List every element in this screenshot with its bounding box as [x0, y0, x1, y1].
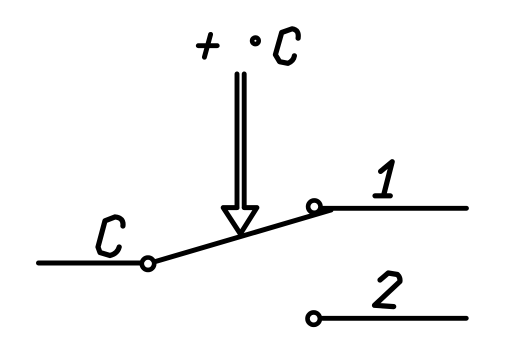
- actuator arrowhead: open triangle, left wing and diagonal: [223, 208, 240, 234]
- label: degree symbol of "+ °C": [252, 38, 259, 45]
- wire: contact 1 lead (right horizontal, upper): [323, 206, 467, 211]
- node C: common terminal open-circle: [142, 258, 154, 270]
- wire: common terminal lead (left horizontal): [39, 261, 142, 266]
- label: C designator at common terminal: [98, 217, 123, 256]
- actuator shaft: double vertical line (right stroke): [242, 74, 247, 208]
- actuator arrowhead: open triangle, right wing and diagonal: [241, 208, 257, 234]
- node 2: second contact open-circle: [308, 312, 320, 324]
- node 1: normally-open contact open-circle: [308, 200, 320, 212]
- label: plus sign of "+ °C" actuation condition: [198, 34, 217, 57]
- label: numeral 1 at contact 1: [375, 162, 392, 196]
- wire: switch lever (movable contact from C toward contact 1): [156, 210, 332, 262]
- actuator shaft: double vertical line (left stroke): [235, 74, 240, 208]
- label: numeral 2 at contact 2: [375, 273, 400, 307]
- label: letter C of "+ °C" (temperature): [275, 29, 298, 64]
- wire: contact 2 lead (right horizontal, lower): [323, 316, 467, 321]
